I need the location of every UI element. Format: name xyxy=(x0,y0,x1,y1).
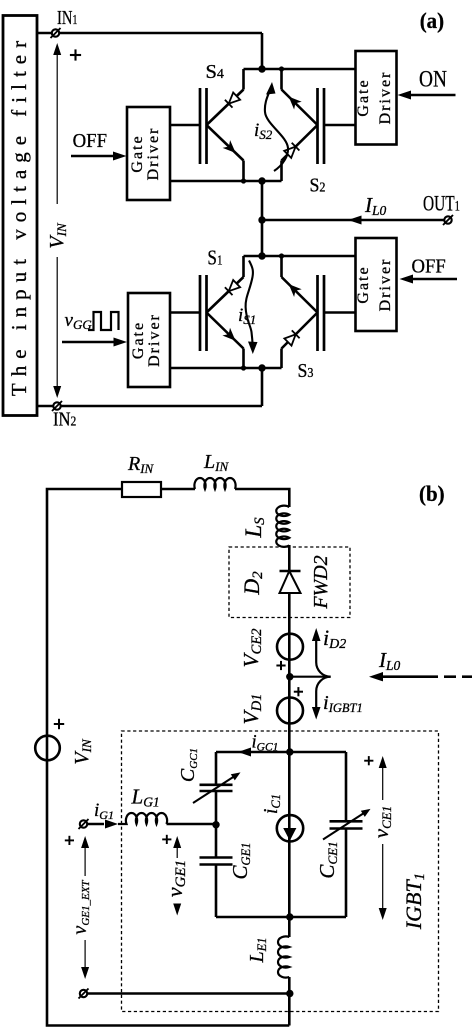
svg-text:IGBT1: IGBT1 xyxy=(401,873,428,930)
wire OUT1 rail xyxy=(262,219,445,222)
transistor S1 xyxy=(200,256,244,368)
svg-text:OFF: OFF xyxy=(73,131,108,153)
S4 collector-side diode mark xyxy=(229,93,240,104)
current arrow iG1 xyxy=(87,800,118,829)
transistor S4 xyxy=(200,69,244,181)
wire U3 gate to S1 xyxy=(170,311,199,314)
wire inner rect bottom xyxy=(216,916,346,919)
S3 collector-side diode mark xyxy=(284,334,295,345)
wire bottom bar (bottom bridge) xyxy=(170,367,282,370)
wire LIN to LS xyxy=(235,489,289,507)
terminal iG1 xyxy=(79,819,89,829)
S4 emitter arrow xyxy=(223,140,236,153)
current arrow iIGBT1 xyxy=(312,677,363,720)
wire inner rect top xyxy=(216,751,346,754)
wire rect bottom to LE1 xyxy=(288,917,291,937)
gate driver U2 (top-right) xyxy=(355,51,397,145)
wire corner IN1 to top bar xyxy=(261,33,264,69)
inductor LE1 xyxy=(246,936,289,977)
junction dots (bottom bridge) xyxy=(241,253,284,371)
S2 emitter arrow xyxy=(289,97,302,110)
wire LG1 to gate node xyxy=(167,823,217,826)
node IL0 junction xyxy=(286,673,293,680)
S3 emitter arrow xyxy=(289,284,302,297)
wire LS to D2 xyxy=(288,545,291,571)
wire rect top-left down to CGC1 xyxy=(215,752,218,784)
wire bottom bridge to IN2 rail xyxy=(261,368,264,406)
wire bottom bar (top bridge) xyxy=(170,180,282,183)
svg-text:Gate: Gate xyxy=(129,134,146,172)
gate driver U3 (bottom-left) xyxy=(128,293,170,387)
node gate xyxy=(212,821,219,828)
wire CGE1 to rect bottom xyxy=(215,865,218,918)
resistor RIN xyxy=(122,453,161,497)
terminal IN2 xyxy=(52,401,62,411)
OFF input (top-left) xyxy=(71,131,127,161)
current arrow iGC1 xyxy=(238,733,278,757)
wire node through VD1 to inner rect xyxy=(288,677,291,752)
label (b) xyxy=(419,482,445,507)
current arrow iS1 xyxy=(238,261,258,355)
svg-text:(a): (a) xyxy=(420,9,444,34)
S1 emitter arrow xyxy=(222,328,235,341)
ON input xyxy=(398,66,456,100)
wire CGC1 to gate node xyxy=(215,791,218,825)
svg-text:Driver: Driver xyxy=(146,313,163,367)
S4 label xyxy=(206,61,224,83)
junction dots (top bridge) xyxy=(241,65,284,184)
svg-text:Driver: Driver xyxy=(377,258,394,312)
transistor S2 xyxy=(282,69,325,181)
node rect bottom / branch xyxy=(286,913,293,920)
svg-text:ON: ON xyxy=(419,66,447,92)
svg-text:Driver: Driver xyxy=(145,127,162,181)
measure arrow vCE1 xyxy=(364,756,394,920)
S3 label xyxy=(298,360,314,382)
wire top bar (top bridge) xyxy=(244,68,356,71)
svg-text:S3: S3 xyxy=(298,360,314,382)
node IN1 label xyxy=(57,6,78,29)
wire gate node to CGE1 xyxy=(215,825,218,857)
source VD1 xyxy=(239,687,303,724)
capacitor CGE1 xyxy=(200,843,254,880)
transistor S3 xyxy=(282,256,325,368)
terminal OUT1 xyxy=(443,215,453,225)
vGG input xyxy=(62,310,127,347)
S1 label xyxy=(207,247,222,270)
measure arrow vGE1_EXT xyxy=(65,836,92,979)
wire top-left loop (b) xyxy=(47,489,289,1026)
svg-text:Driver: Driver xyxy=(377,71,394,125)
source VIN (b) xyxy=(35,719,94,765)
wire node to Y-split xyxy=(290,676,331,678)
current arrow iS2 xyxy=(254,82,288,171)
wire RIN to LIN xyxy=(161,488,195,491)
dashed box IGBT1 xyxy=(122,731,439,1012)
current arrow IL0 (b) xyxy=(369,648,472,681)
svg-text:Gate: Gate xyxy=(355,265,372,303)
S2 collector-side diode mark xyxy=(284,147,295,158)
capacitor CGC1 (variable) xyxy=(177,748,241,803)
node main branch / rect top xyxy=(286,748,293,755)
node emitter terminal junction xyxy=(286,990,293,997)
svg-text:S2: S2 xyxy=(310,174,326,196)
input voltage filter block xyxy=(3,16,37,416)
terminal emitter kelvin xyxy=(79,989,89,999)
gate driver U1 (top-left) xyxy=(127,107,170,200)
svg-text:OUT1: OUT1 xyxy=(423,192,460,216)
wire emitter kelvin xyxy=(87,992,289,995)
junction dots (mid rail) xyxy=(258,216,265,259)
dashed box FWD2 xyxy=(229,547,350,618)
wire U1 gate to S4 xyxy=(170,124,199,127)
svg-text:Gate: Gate xyxy=(130,321,147,359)
svg-text:OFF: OFF xyxy=(412,256,446,278)
wire IN2 rail xyxy=(37,405,262,408)
wire S2 gate to U2 xyxy=(324,124,356,127)
S2 label xyxy=(310,174,326,196)
inductor LG1 xyxy=(118,785,167,825)
svg-text:(b): (b) xyxy=(419,482,445,507)
diode D2 xyxy=(239,571,301,596)
svg-text:The input voltage filter: The input voltage filter xyxy=(7,34,31,396)
capacitor CCE1 (variable) xyxy=(315,809,371,879)
inductor LS xyxy=(241,506,289,547)
node OUT1 label xyxy=(423,192,460,216)
wire rect right edge xyxy=(345,752,348,917)
current arrow iD2 xyxy=(312,625,346,677)
measure arrow VIN (a) xyxy=(46,43,81,398)
wire top bar (bottom bridge) xyxy=(244,255,356,258)
label (a) xyxy=(420,9,444,34)
node IN2 label xyxy=(53,408,76,430)
wire S3 gate to U4 xyxy=(324,311,356,314)
source VCE2 xyxy=(239,629,303,671)
wire D2 through VCE2 to node xyxy=(288,593,291,676)
OFF input (bottom-right) xyxy=(400,256,458,284)
measure arrow vGE1 xyxy=(162,835,189,916)
gate driver U4 (bottom-right) xyxy=(355,238,397,331)
S1 collector-side diode mark xyxy=(229,280,240,291)
current arrow IL0 (a) xyxy=(348,193,387,225)
svg-text:FWD2: FWD2 xyxy=(310,555,332,609)
wire LE1 to bottom rail xyxy=(288,977,291,1026)
inductor LIN xyxy=(194,451,235,489)
wire middle vertical xyxy=(261,181,264,256)
wire IN1 rail xyxy=(37,32,262,35)
terminal IN1 xyxy=(51,28,61,38)
current source iC1 xyxy=(260,752,303,917)
svg-text:Gate: Gate xyxy=(355,78,372,116)
